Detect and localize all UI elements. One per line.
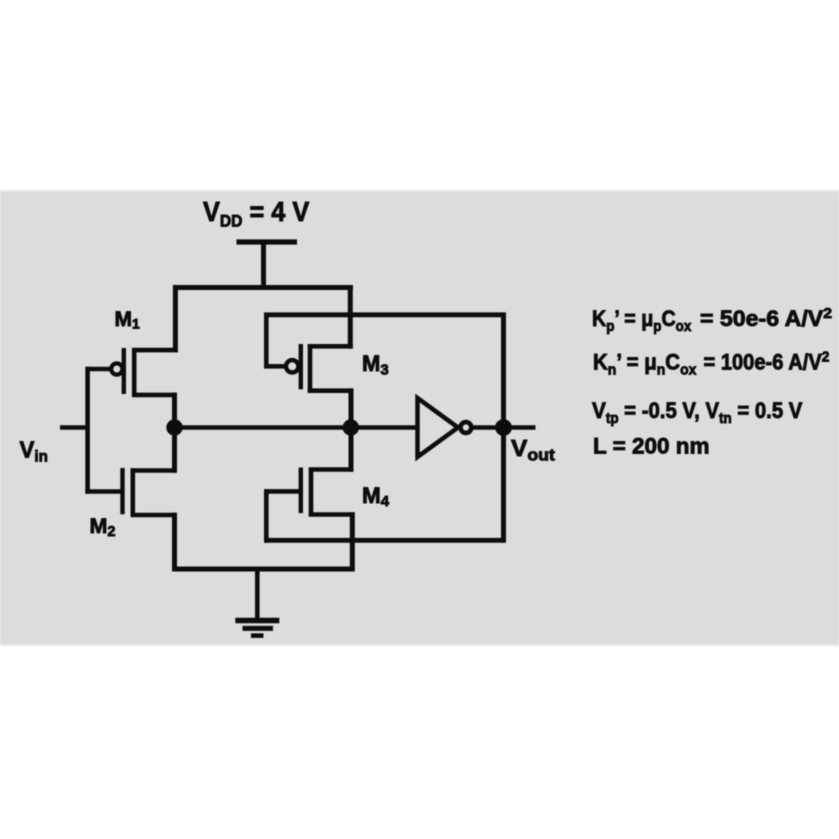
ground bar 2 — [243, 626, 274, 631]
transistor M4 drain arm — [309, 467, 354, 472]
svg-text:L = 200 nm: L = 200 nm — [593, 434, 710, 459]
transistor M2 drain arm — [131, 468, 177, 473]
wire M4 source to bottom rail — [350, 512, 355, 571]
node B (M3/M4 drains junction) — [343, 419, 359, 435]
transistor M1 gate wire — [86, 367, 111, 372]
transistor M4 gate wire — [264, 489, 301, 494]
svg-text:VDD = 4 V: VDD = 4 V — [203, 196, 310, 231]
wire M2 source to bottom rail — [172, 513, 177, 572]
transistor M1 source arm — [132, 348, 178, 353]
wire bottom feedback horizontal — [264, 538, 504, 543]
transistor M2 channel — [131, 468, 136, 516]
wire main node to inverter — [175, 425, 418, 430]
wire M1 drain to M2 drain — [172, 393, 177, 473]
transistor M3 gate wire — [264, 364, 286, 369]
transistor M3 gate bar — [299, 344, 303, 389]
transistor M2 gate wire — [85, 489, 122, 494]
wire rail to M3 source — [348, 285, 353, 348]
wire bottom rail — [172, 567, 354, 572]
transistor M4 channel — [309, 468, 314, 517]
VDD supply bar — [237, 239, 298, 244]
transistor M3 gate bubble — [286, 360, 298, 372]
wire VDD stub — [261, 242, 266, 290]
svg-text:Vtp = -0.5 V, Vtn = 0.5 V: Vtp = -0.5 V, Vtn = 0.5 V — [592, 397, 802, 426]
transistor M3 drain arm — [308, 388, 354, 393]
wire right vertical (Vout to feedbacks) — [501, 312, 506, 542]
wire rail to M1 source — [173, 285, 178, 352]
transistor M1 drain arm — [132, 393, 177, 398]
transistor M3 channel — [308, 344, 313, 392]
ground bar 3 — [251, 633, 264, 638]
wire top rail — [173, 285, 353, 290]
transistor M1 gate bar — [122, 348, 126, 394]
transistor M2 gate bar — [120, 468, 124, 514]
transistor M2 source arm — [131, 513, 177, 518]
wire M3 drain to M4 drain — [349, 388, 354, 471]
wire top feedback vertical — [264, 313, 269, 369]
transistor M4 source arm — [309, 512, 355, 517]
wire ground stub — [255, 567, 260, 618]
transistor M3 source arm — [308, 344, 353, 349]
wire inverter to Vout — [472, 425, 536, 430]
wire Vin vertical — [85, 367, 90, 494]
transistor M4 gate bar — [299, 468, 303, 514]
wire Vin stub — [60, 425, 88, 430]
wire bottom feedback vertical — [264, 489, 269, 543]
transistor M1 gate bubble — [111, 363, 122, 374]
inverter U1 output bubble — [461, 422, 472, 433]
svg-text:= 100e-6 A/V2: = 100e-6 A/V2 — [704, 349, 830, 375]
node Vout junction — [495, 419, 512, 436]
node A (M1/M2 drains junction) — [166, 419, 182, 435]
wire top feedback horizontal — [264, 312, 504, 317]
inverter U1 triangle — [418, 398, 459, 457]
gray background band — [0, 191, 839, 646]
transistor M1 channel — [132, 348, 137, 396]
ground bar 1 — [235, 618, 279, 623]
svg-text:= 50e-6 A/V2: = 50e-6 A/V2 — [700, 305, 832, 331]
